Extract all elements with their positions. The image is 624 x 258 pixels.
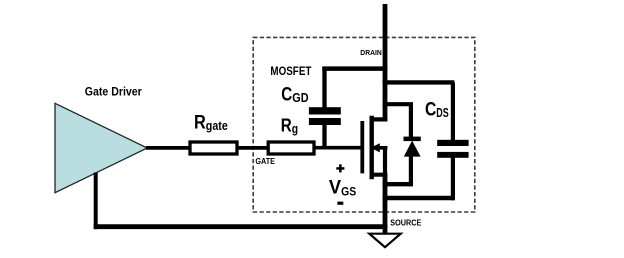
gate driver U1: [55, 85, 147, 193]
V_GS label with polarity: [329, 164, 357, 205]
wire Rgate to Rg: [237, 146, 270, 150]
channel bar: [370, 116, 374, 179]
wire CDS bottom lead: [451, 157, 455, 200]
wire gate node: Rg to MOSFET gate: [314, 146, 364, 150]
arrow-to-source vertical: [383, 148, 387, 175]
wire drain main vertical: [383, 4, 388, 122]
gate bar: [360, 121, 364, 173]
wire source main vertical: [383, 175, 388, 234]
wire drain branch to CDS: [383, 80, 455, 84]
wire drain branch to body diode: [383, 102, 413, 106]
wire CGD bottom lead to gate node: [322, 123, 326, 148]
source stub: [370, 173, 388, 177]
diode D1 (body diode): [404, 137, 421, 157]
MOSFET Q1: [362, 116, 387, 179]
wire CGD top to drain line: [322, 66, 387, 71]
capacitor CDS: [425, 99, 469, 158]
svg-text:SOURCE: SOURCE: [390, 218, 421, 228]
drain stub: [370, 117, 388, 121]
ground: [369, 234, 400, 248]
wire bottom return to source: [94, 224, 388, 229]
substrate arrow segment: [377, 146, 387, 150]
wire CGD top lead: [322, 67, 326, 109]
wire driver return vertical: [94, 173, 98, 230]
resistor Rgate: [190, 111, 237, 154]
dashed MOSFET model box: [253, 37, 475, 212]
svg-text:GATE: GATE: [255, 157, 275, 166]
wire diode bottom lead: [409, 156, 413, 187]
capacitor CGD: [281, 83, 341, 125]
svg-text:MOSFET: MOSFET: [270, 66, 311, 78]
svg-text:DRAIN: DRAIN: [360, 48, 382, 57]
wire driver output to Rgate: [146, 146, 190, 150]
svg-text:Gate Driver: Gate Driver: [85, 85, 142, 99]
resistor Rg: [268, 115, 314, 154]
